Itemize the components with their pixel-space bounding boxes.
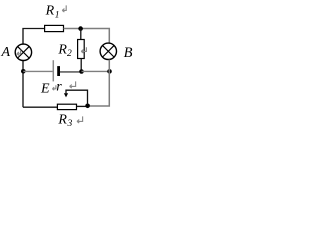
svg-text:B: B [124, 45, 133, 61]
resistor R3 (rheostat) [57, 104, 76, 109]
svg-text:R: R [57, 42, 67, 57]
wire: lamp B down to bottom-right corner, left to dot [88, 60, 110, 106]
battery E short plate [57, 66, 60, 76]
paragraph mark after E r [70, 81, 76, 88]
paragraph mark after A [17, 50, 21, 56]
lamp B [100, 43, 116, 59]
lamp A [15, 44, 31, 60]
wire: top gray (R1 to top-right corner, down to lamp B) [64, 29, 110, 44]
node: dot at bottom junction [85, 104, 90, 109]
wire: middle gray right (to lamp B branch) [82, 70, 110, 72]
svg-text:A: A [1, 45, 11, 60]
wire: R2 bottom lead [80, 59, 82, 72]
resistor R2 [78, 40, 85, 59]
node: dot on lamp B branch [107, 69, 112, 74]
svg-text:1: 1 [55, 10, 60, 20]
node: dot at left middle junction [21, 69, 26, 74]
resistor R1 [45, 25, 64, 31]
wire: top-left horizontal (corner to R1) [23, 29, 45, 45]
rheostat slider arrow and wire [64, 90, 88, 104]
wire: bottom black (corner to R3) [23, 106, 57, 108]
wire: middle gray left (to battery) [23, 70, 52, 72]
svg-text:R: R [57, 112, 67, 127]
wire: left vertical below lamp A [22, 60, 24, 107]
node: junction dot on top wire [78, 26, 83, 31]
node: dot at R2 bottom junction [79, 69, 84, 74]
wire: R3 right lead [77, 105, 88, 107]
wire: battery to R2 junction [60, 71, 81, 73]
svg-text:E: E [40, 81, 50, 96]
paragraph mark after R1 [62, 5, 66, 12]
svg-text:2: 2 [67, 49, 72, 59]
svg-text:R: R [45, 3, 55, 18]
svg-text:3: 3 [67, 119, 73, 129]
paragraph mark after R3 [77, 116, 83, 123]
paragraph mark at R2 [81, 47, 86, 53]
wire: R2 top lead [80, 29, 82, 40]
battery E long plate [52, 60, 54, 81]
small mark between E and r [52, 85, 56, 90]
svg-text:r: r [56, 80, 62, 95]
